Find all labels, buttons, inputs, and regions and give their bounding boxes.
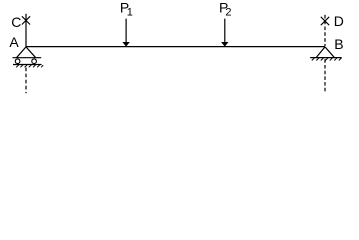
load P1 arrow shaft (125, 19, 127, 43)
X marker at C (22, 16, 30, 24)
dashed line D to B (324, 15, 326, 46)
svg-text:A: A (9, 34, 19, 50)
svg-text:B: B (334, 36, 343, 52)
X marker at D (321, 17, 329, 25)
support B ground line (310, 57, 342, 59)
support B triangle (316, 47, 335, 58)
load P1 arrowhead (122, 42, 129, 47)
support A ground line (13, 64, 42, 66)
support B ground hatching (312, 58, 342, 61)
support A roller right (32, 59, 37, 64)
load P2 arrowhead (221, 42, 228, 47)
dashed axis line below A (25, 68, 27, 94)
column stub A to C (25, 14, 27, 47)
beam AB (26, 46, 325, 48)
svg-text:C: C (11, 14, 21, 30)
svg-text:2: 2 (225, 7, 231, 19)
svg-text:1: 1 (127, 6, 133, 18)
svg-text:D: D (334, 13, 344, 29)
support A roller top line (13, 57, 42, 59)
dashed axis line below B (324, 59, 326, 92)
support A roller left (15, 59, 20, 64)
load P2 arrow shaft (224, 19, 226, 43)
support A triangle (17, 47, 36, 58)
support A ground hatching (16, 65, 43, 68)
